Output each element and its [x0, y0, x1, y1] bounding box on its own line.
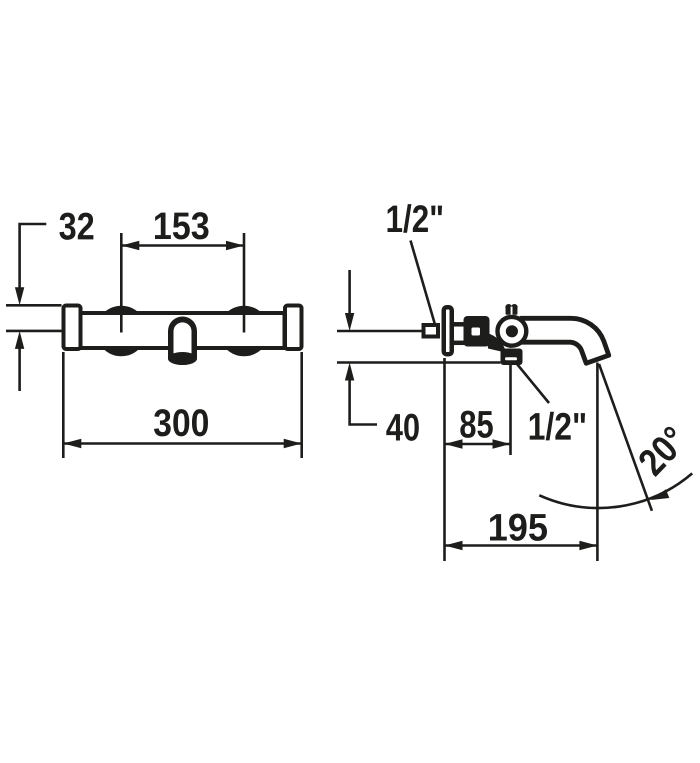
- cartridge block: [464, 316, 490, 347]
- spout nozzle outlet ellipse: [168, 352, 197, 365]
- wall union square: [424, 325, 439, 337]
- label 20 degrees (rotated): [640, 427, 676, 477]
- label 153: [155, 212, 209, 239]
- extension line 300 right: [300, 352, 303, 458]
- arrow 40 down: [345, 313, 354, 331]
- dimension line 195: [445, 544, 598, 547]
- handle knob left lobe: [505, 304, 512, 311]
- handle center dot: [506, 325, 518, 337]
- neck bottom edge: [452, 341, 466, 346]
- arrow 85 left: [445, 439, 463, 448]
- arrow 85 right: [493, 439, 511, 448]
- spout tube (side view): [521, 318, 609, 363]
- handle knob right lobe: [511, 304, 518, 311]
- extension line wall plane (85/195 left): [443, 358, 446, 561]
- neck top edge: [452, 322, 466, 327]
- leader line top 1/2 inch: [411, 241, 437, 331]
- cartridge white slot: [472, 328, 481, 336]
- extension line 85 right: [509, 365, 512, 455]
- extension line 153 right: [243, 233, 246, 333]
- arrow 153 right: [226, 241, 244, 250]
- reference line top (cap top level): [6, 304, 62, 307]
- handle knob white slit: [511, 307, 513, 316]
- label 40: [386, 414, 419, 441]
- label 1/2 inch top: [388, 204, 443, 233]
- stem above 40 down-arrow: [348, 270, 351, 324]
- label 195: [490, 514, 547, 541]
- reference line supply axis: [337, 330, 422, 333]
- right end cap: [285, 306, 302, 350]
- reference line outlet level: [337, 361, 501, 364]
- dimension line 85: [445, 443, 512, 446]
- extension line 300 left: [62, 352, 65, 458]
- arrow 195 left: [445, 541, 463, 550]
- handle ring: [498, 317, 527, 346]
- valve body wedge: [487, 333, 506, 353]
- arrow 32 up: [15, 331, 24, 349]
- vertical reference ray from spout mouth: [596, 363, 599, 562]
- mounting rosette right (filled circle behind body): [219, 306, 270, 357]
- leader line lower 1/2 inch: [517, 364, 549, 403]
- arrow 300 right: [284, 439, 302, 448]
- arrow 40 up: [345, 363, 354, 381]
- dimension 32 bracket: [20, 224, 47, 298]
- mixer body bar: [81, 313, 285, 348]
- arrow 153 left: [121, 241, 139, 250]
- label 85: [460, 411, 493, 438]
- 20 degree ray: [599, 364, 652, 511]
- spout nozzle (front view) black body: [168, 317, 197, 366]
- left end cap: [64, 306, 81, 350]
- extension line 153 left: [120, 233, 123, 333]
- wall flange: [444, 307, 452, 354]
- mounting rosette left (filled circle behind body): [96, 306, 147, 357]
- arrow 32 down: [15, 287, 24, 305]
- stem below 32 up-arrow: [18, 338, 21, 391]
- angle arc 20 degrees: [539, 473, 692, 508]
- handle knob base: [506, 307, 518, 315]
- reference line bottom (axis level): [6, 330, 62, 333]
- label 300: [154, 409, 208, 436]
- arrow angle arc: [651, 489, 670, 500]
- dimension line 153: [121, 244, 244, 247]
- arrow 195 right: [579, 541, 597, 550]
- label 32: [59, 213, 93, 240]
- bracket 40: [350, 370, 377, 425]
- spout nozzle inner white arch: [174, 322, 192, 353]
- arrow 300 left: [63, 439, 81, 448]
- dimension line 300: [63, 442, 301, 445]
- label 1/2 inch lower: [530, 412, 585, 441]
- lower outlet block: [501, 349, 523, 366]
- lower outlet white dash: [505, 357, 517, 360]
